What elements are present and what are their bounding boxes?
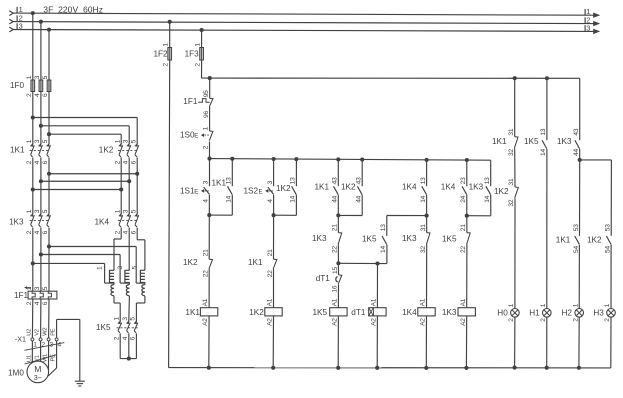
svg-text:44: 44 [573, 149, 580, 156]
svg-text:1S2: 1S2 [244, 187, 259, 196]
svg-text:1F3: 1F3 [185, 49, 200, 58]
svg-text:32: 32 [508, 149, 515, 156]
svg-text:A2: A2 [202, 318, 209, 326]
svg-text:14: 14 [380, 246, 387, 253]
svg-text:21: 21 [203, 249, 210, 256]
svg-text:6: 6 [130, 230, 137, 234]
svg-text:14: 14 [290, 195, 297, 202]
svg-text:1: 1 [113, 317, 120, 321]
svg-text:2: 2 [42, 342, 46, 349]
svg-text:3: 3 [122, 317, 129, 321]
svg-text:E: E [194, 134, 198, 140]
svg-text:15: 15 [332, 267, 339, 274]
svg-text:E: E [259, 189, 263, 195]
svg-text:54: 54 [573, 246, 580, 253]
svg-text:23: 23 [460, 177, 467, 184]
svg-text:1K2: 1K2 [249, 308, 264, 317]
svg-text:5: 5 [130, 139, 137, 143]
svg-text:13: 13 [484, 177, 491, 184]
svg-text:3: 3 [586, 23, 590, 32]
svg-text:2: 2 [26, 160, 33, 164]
svg-text:4: 4 [34, 301, 41, 305]
svg-text:U1: U1 [26, 355, 32, 362]
svg-text:1K3: 1K3 [312, 234, 327, 243]
svg-text:1: 1 [195, 43, 202, 47]
svg-text:1: 1 [26, 75, 33, 79]
svg-text:A2: A2 [460, 318, 467, 326]
svg-text:4: 4 [34, 93, 41, 97]
svg-text:1K2: 1K2 [494, 187, 509, 196]
svg-text:3: 3 [267, 180, 274, 184]
svg-text:1: 1 [163, 43, 170, 47]
svg-text:3: 3 [203, 180, 210, 184]
svg-text:1F1: 1F1 [14, 291, 29, 300]
svg-text:5: 5 [42, 209, 49, 213]
svg-text:2: 2 [114, 160, 121, 164]
svg-text:A2: A2 [371, 318, 378, 326]
svg-text:2: 2 [203, 145, 210, 149]
svg-text:3: 3 [34, 139, 41, 143]
svg-text:3: 3 [122, 209, 129, 213]
svg-text:1K4: 1K4 [95, 218, 110, 227]
svg-text:A2: A2 [420, 318, 427, 326]
svg-text:22: 22 [332, 246, 339, 253]
svg-text:43: 43 [356, 177, 363, 184]
svg-text:21: 21 [267, 249, 274, 256]
svg-text:1S1: 1S1 [180, 187, 195, 196]
svg-text:2: 2 [540, 318, 547, 322]
svg-text:1K3: 1K3 [402, 234, 417, 243]
svg-text:95: 95 [203, 90, 210, 97]
svg-text:1K5: 1K5 [362, 235, 377, 244]
svg-text:A1: A1 [420, 298, 427, 306]
svg-text:1K1: 1K1 [315, 182, 330, 191]
svg-text:1K1: 1K1 [212, 179, 227, 188]
svg-text:1M0: 1M0 [8, 369, 24, 378]
svg-text:2: 2 [26, 93, 33, 97]
svg-text:1K5: 1K5 [524, 137, 539, 146]
svg-text:44: 44 [332, 195, 339, 202]
svg-text:43: 43 [573, 128, 580, 135]
svg-text:4: 4 [267, 199, 274, 203]
svg-text:21: 21 [460, 224, 467, 231]
svg-text:1K3: 1K3 [442, 308, 457, 317]
svg-text:1K1: 1K1 [248, 258, 263, 267]
svg-text:5: 5 [131, 266, 138, 270]
svg-text:44: 44 [356, 195, 363, 202]
svg-text:1K2: 1K2 [587, 236, 602, 245]
svg-text:dT1: dT1 [351, 308, 366, 317]
svg-text:6: 6 [42, 301, 49, 305]
svg-text:21: 21 [332, 224, 339, 231]
svg-text:1K1: 1K1 [556, 236, 571, 245]
svg-text:1K1: 1K1 [10, 146, 25, 155]
svg-text:6: 6 [42, 93, 49, 97]
svg-text:6: 6 [42, 160, 49, 164]
svg-text:22: 22 [203, 270, 210, 277]
svg-text:PE: PE [51, 328, 57, 336]
svg-text:14: 14 [420, 195, 427, 202]
svg-text:2: 2 [114, 230, 121, 234]
svg-text:31: 31 [508, 128, 515, 135]
svg-text:1: 1 [572, 303, 579, 307]
svg-text:2: 2 [26, 301, 33, 305]
svg-text:32: 32 [508, 199, 515, 206]
svg-text:13: 13 [226, 177, 233, 184]
svg-text:H3: H3 [593, 309, 604, 318]
svg-text:53: 53 [573, 224, 580, 231]
svg-text:4: 4 [122, 336, 129, 340]
svg-text:H2: H2 [562, 309, 573, 318]
svg-text:53: 53 [605, 224, 612, 231]
svg-text:3: 3 [34, 209, 41, 213]
svg-text:A1: A1 [460, 298, 467, 306]
svg-text:24: 24 [460, 195, 467, 202]
svg-text:13: 13 [290, 177, 297, 184]
svg-text:1K5: 1K5 [442, 235, 457, 244]
svg-text:1: 1 [604, 303, 611, 307]
svg-text:2: 2 [26, 230, 33, 234]
svg-text:1F1: 1F1 [183, 97, 198, 106]
svg-text:5: 5 [42, 139, 49, 143]
svg-text:5: 5 [42, 75, 49, 79]
svg-text:A1: A1 [371, 298, 378, 306]
svg-text:14: 14 [226, 195, 233, 202]
svg-text:31: 31 [508, 178, 515, 185]
svg-text:-X1: -X1 [15, 334, 26, 343]
svg-text:A2: A2 [267, 318, 274, 326]
svg-text:1F2: 1F2 [154, 49, 169, 58]
svg-text:5: 5 [42, 286, 49, 290]
svg-text:1K2: 1K2 [341, 182, 356, 191]
svg-text:6: 6 [130, 160, 137, 164]
svg-text:2: 2 [604, 318, 611, 322]
svg-text:4: 4 [203, 199, 210, 203]
svg-text:PE: PE [51, 354, 57, 362]
svg-text:A2: A2 [332, 318, 339, 326]
svg-text:14: 14 [484, 195, 491, 202]
svg-text:1: 1 [114, 139, 121, 143]
svg-text:1K5: 1K5 [96, 323, 111, 332]
svg-text:1: 1 [540, 303, 547, 307]
svg-text:16: 16 [332, 285, 339, 292]
svg-text:5: 5 [130, 209, 137, 213]
svg-text:3F 220V 60Hz: 3F 220V 60Hz [43, 4, 103, 14]
svg-text:1S0: 1S0 [180, 130, 195, 139]
svg-text:H0: H0 [497, 309, 508, 318]
svg-text:W2: W2 [43, 328, 49, 336]
svg-text:dT1: dT1 [316, 274, 331, 283]
svg-text:3~: 3~ [34, 373, 42, 382]
svg-text:1K4: 1K4 [441, 183, 456, 192]
svg-text:1: 1 [508, 303, 515, 307]
svg-text:14: 14 [540, 149, 547, 156]
svg-text:1K2: 1K2 [99, 146, 114, 155]
svg-text:13: 13 [540, 128, 547, 135]
svg-text:1K3: 1K3 [557, 137, 572, 146]
svg-text:1K1: 1K1 [185, 308, 200, 317]
svg-text:22: 22 [267, 270, 274, 277]
svg-text:13: 13 [420, 177, 427, 184]
svg-text:5: 5 [130, 317, 137, 321]
svg-text:3: 3 [34, 75, 41, 79]
svg-text:3: 3 [34, 286, 41, 290]
svg-text:H1: H1 [529, 309, 540, 318]
svg-text:2: 2 [572, 318, 579, 322]
svg-text:4: 4 [34, 230, 41, 234]
svg-text:1K4: 1K4 [402, 182, 417, 191]
svg-text:1K1: 1K1 [492, 137, 507, 146]
svg-text:32: 32 [420, 246, 427, 253]
svg-text:2: 2 [195, 63, 202, 67]
svg-text:1: 1 [26, 286, 33, 290]
svg-text:4: 4 [34, 160, 41, 164]
svg-text:1K5: 1K5 [313, 308, 328, 317]
svg-text:A1: A1 [267, 298, 274, 306]
svg-text:A1: A1 [202, 298, 209, 306]
svg-text:54: 54 [605, 246, 612, 253]
svg-text:1: 1 [203, 127, 210, 131]
svg-text:4: 4 [58, 342, 62, 349]
svg-text:W1: W1 [43, 354, 49, 362]
svg-text:2: 2 [508, 318, 515, 322]
svg-text:4: 4 [122, 160, 129, 164]
svg-text:22: 22 [460, 246, 467, 253]
svg-text:1K4: 1K4 [402, 308, 417, 317]
svg-text:A1: A1 [332, 298, 339, 306]
svg-text:4: 4 [122, 230, 129, 234]
svg-text:6: 6 [130, 336, 137, 340]
svg-text:1: 1 [26, 209, 33, 213]
svg-text:1K3: 1K3 [9, 218, 24, 227]
svg-text:2: 2 [113, 336, 120, 340]
svg-text:3: 3 [122, 139, 129, 143]
svg-text:1K3: 1K3 [469, 183, 484, 192]
svg-text:1K2: 1K2 [276, 184, 291, 193]
svg-text:43: 43 [332, 177, 339, 184]
svg-text:1F0: 1F0 [10, 81, 25, 90]
svg-text:31: 31 [420, 224, 427, 231]
svg-text:3: 3 [117, 266, 124, 270]
svg-text:1: 1 [26, 139, 33, 143]
svg-text:V2: V2 [35, 329, 41, 336]
svg-text:U2: U2 [26, 329, 32, 336]
svg-text:E: E [194, 189, 198, 195]
svg-text:1: 1 [97, 266, 104, 270]
svg-text:6: 6 [42, 230, 49, 234]
svg-text:96: 96 [203, 111, 210, 118]
svg-text:2: 2 [163, 63, 170, 67]
svg-text:3: 3 [19, 22, 23, 31]
svg-text:1: 1 [114, 209, 121, 213]
svg-text:13: 13 [380, 224, 387, 231]
svg-text:1K2: 1K2 [183, 258, 198, 267]
